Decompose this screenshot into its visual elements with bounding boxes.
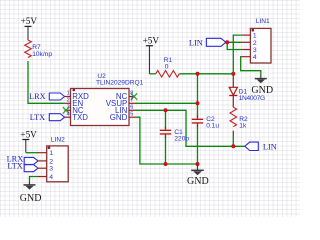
svg-text:+5V: +5V [21, 16, 38, 26]
svg-text:LTX: LTX [30, 113, 45, 122]
resistor R1 [156, 71, 179, 78]
svg-text:5: 5 [130, 111, 133, 117]
svg-text:2: 2 [67, 97, 70, 103]
svg-text:LRX: LRX [29, 92, 46, 101]
junction C1 bottom [164, 162, 168, 166]
junction R2 bottom / LIN [231, 144, 235, 148]
U2 pin 7 VSUP [129, 102, 135, 104]
U2 pin 6 LIN [129, 109, 135, 111]
svg-text:1: 1 [67, 91, 70, 97]
power flag +5V (LIN2) [20, 129, 37, 152]
U2 pin 5 GND [129, 116, 135, 118]
wire LIN pin6 right, down and to LIN port [135, 110, 245, 146]
wire pin4 to ground [241, 57, 261, 75]
no-connect X pin 8 [131, 93, 137, 99]
svg-text:10k/np: 10k/np [32, 51, 52, 58]
no-connect X pin 3 [63, 107, 69, 113]
svg-text:GND: GND [20, 193, 42, 204]
svg-text:1: 1 [49, 150, 53, 157]
svg-text:+5V: +5V [143, 36, 160, 46]
wire LIN pennant to pin2 [226, 41, 242, 43]
wire VSUP pin7 to C2 column [135, 102, 198, 104]
port pennant LTX [49, 114, 64, 121]
svg-text:1k: 1k [239, 123, 247, 130]
svg-text:+5V: +5V [20, 129, 37, 139]
svg-text:GND: GND [110, 113, 128, 122]
svg-text:R7: R7 [32, 44, 41, 51]
svg-text:LIN1: LIN1 [256, 18, 270, 25]
U2 pin 4 TXD [65, 116, 71, 118]
port pennant LRX LIN2 [24, 157, 38, 164]
wire +5V corner to R1 [149, 73, 155, 75]
connector LIN1 body [250, 28, 271, 63]
junction C2 bottom / GND [196, 162, 200, 166]
power flag +5V (left) [21, 16, 38, 40]
wire C2 column vertical [197, 74, 199, 164]
junction LIN pennant [225, 40, 229, 44]
svg-text:2: 2 [49, 158, 53, 165]
wire GND pin5 to ground rail [135, 117, 198, 164]
wire +5V to R7 / R7 to pin2 [28, 61, 65, 103]
LIN2 pin 2 [38, 160, 47, 162]
LIN2 pin 3 [38, 167, 47, 169]
svg-text:220p: 220p [174, 135, 189, 142]
junction R1/C2 rail [196, 72, 200, 76]
LIN1 pin 1 [242, 34, 251, 36]
svg-text:TXD: TXD [72, 113, 88, 122]
LIN1 pin 2 [242, 41, 251, 43]
svg-text:3: 3 [253, 47, 257, 54]
connector LIN2 body [47, 146, 68, 182]
ground GND (below LIN1) [251, 75, 273, 97]
svg-text:GND: GND [251, 85, 273, 96]
junction C1 top [164, 108, 168, 112]
wire junction down to pin3 [227, 42, 241, 49]
U2 pin 8 NC [129, 96, 135, 98]
U2 pin 1 RXD [65, 96, 71, 98]
port pennant LIN (right) [245, 142, 258, 150]
diode D1 1N4007G [232, 74, 234, 88]
svg-text:TLIN2029DRQ1: TLIN2029DRQ1 [96, 80, 144, 87]
ground GND (below LIN2) [20, 181, 42, 204]
wire LIN1 pin1 column [233, 35, 241, 74]
wire LIN2 pin4 to ground [30, 177, 39, 182]
LIN1 pin 3 [242, 49, 251, 51]
svg-text:7: 7 [130, 97, 133, 103]
LIN2 pin 1 [38, 152, 47, 154]
svg-text:4: 4 [49, 174, 53, 181]
svg-text:LIN2: LIN2 [51, 136, 65, 143]
svg-text:GND: GND [187, 176, 209, 187]
svg-text:LTX: LTX [7, 161, 22, 170]
svg-text:2: 2 [253, 40, 257, 47]
power flag +5V (top center) [143, 36, 160, 74]
op IC U2 TLIN2029DRQ1 body [71, 89, 130, 126]
port pennant LTX LIN2 [24, 165, 38, 172]
svg-text:4: 4 [253, 54, 257, 61]
U2 pin 3 NC [65, 109, 71, 111]
ground GND (center) [187, 164, 209, 187]
U2 pin 2 EN [65, 102, 71, 104]
LIN1 pin 4 [242, 56, 251, 58]
port pennant LRX [49, 93, 64, 100]
port pennant LIN top [206, 38, 225, 46]
svg-text:LIN: LIN [189, 38, 203, 47]
resistor R7 [25, 40, 32, 58]
svg-text:0.1u: 0.1u [206, 122, 219, 129]
svg-text:6: 6 [130, 104, 133, 110]
junction VSUP/C2 [196, 101, 200, 105]
capacitor C2 [197, 115, 199, 127]
LIN2 pin 4 [38, 176, 47, 178]
resistor R2 1k [230, 107, 237, 127]
junction D1 anode / rail [231, 72, 235, 76]
wire +5V to LIN2 pin1 [26, 152, 38, 154]
svg-text:4: 4 [67, 111, 70, 117]
svg-text:LIN: LIN [263, 143, 277, 152]
svg-text:0: 0 [165, 64, 169, 71]
wire C1 column vertical [165, 110, 167, 164]
svg-text:3: 3 [49, 166, 53, 173]
wire R1 to rail junctions [179, 73, 233, 75]
capacitor C1 [165, 127, 167, 139]
svg-text:1: 1 [253, 33, 257, 40]
